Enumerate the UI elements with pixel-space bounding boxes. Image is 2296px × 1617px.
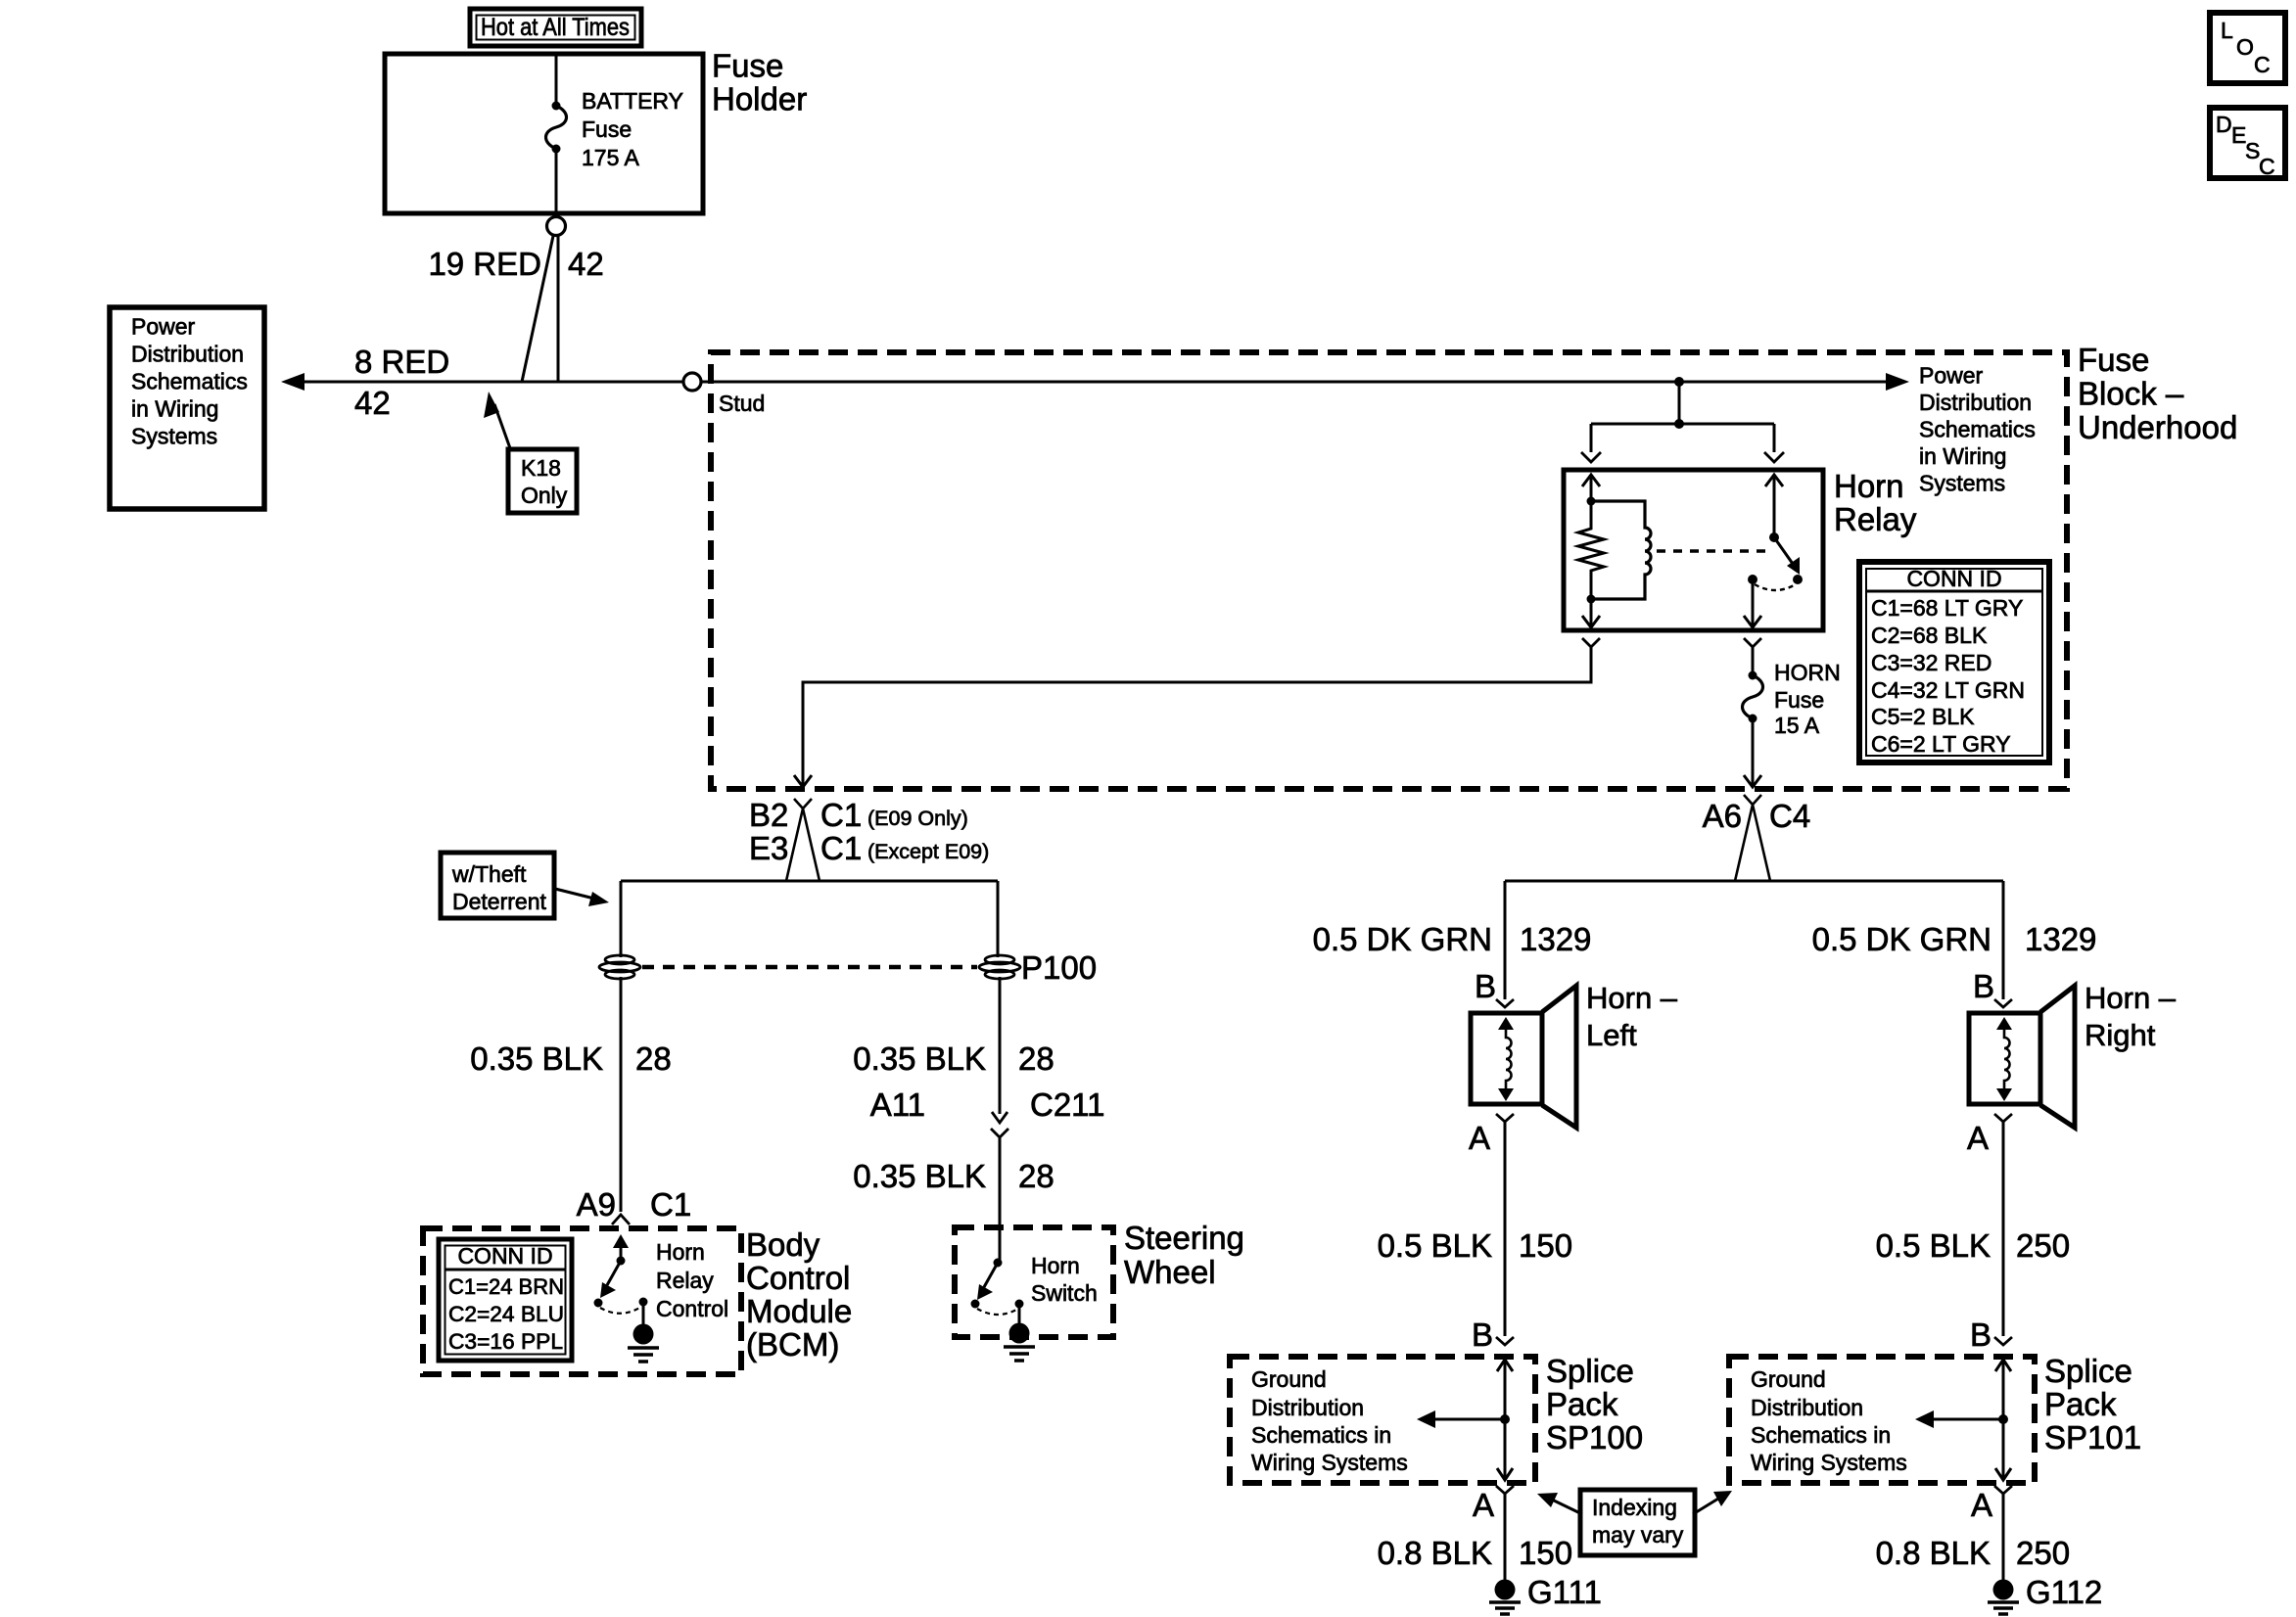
stud ring terminal — [683, 373, 701, 391]
splice pack SP101 dashed box — [1729, 1357, 2035, 1483]
svg-text:C2=24 BLU: C2=24 BLU — [448, 1302, 564, 1326]
relay closed contact — [1793, 575, 1803, 584]
svg-text:K18: K18 — [521, 455, 561, 481]
label 0.5 BLK 150 — [1378, 1227, 1572, 1264]
HORN fuse 15A symbol — [1743, 671, 1763, 723]
BATTERY fuse value label — [582, 88, 683, 170]
svg-text:Schematics in: Schematics in — [1751, 1422, 1891, 1448]
wire fuse to box edge — [1752, 718, 1755, 786]
svg-text:A: A — [1473, 1487, 1494, 1523]
svg-text:0.5 DK GRN: 0.5 DK GRN — [1313, 921, 1492, 957]
node coil bottom — [1587, 595, 1596, 604]
SP100 reference arrow — [1417, 1410, 1510, 1428]
connector A6/C4 X symbol — [1735, 795, 1770, 881]
svg-text:28: 28 — [1018, 1040, 1054, 1077]
svg-text:P100: P100 — [1021, 949, 1097, 986]
relay output contact — [1748, 575, 1757, 584]
svg-text:Horn: Horn — [1834, 468, 1904, 504]
indexing arrow right — [1693, 1491, 1732, 1514]
svg-text:Module: Module — [746, 1293, 852, 1329]
svg-text:250: 250 — [2016, 1227, 2070, 1264]
label 0.35 BLK 28 (mid) — [853, 1040, 1054, 1077]
svg-text:Control: Control — [746, 1260, 850, 1296]
svg-text:A: A — [1469, 1120, 1490, 1156]
wire main bus from stud to right arrow — [701, 373, 1909, 391]
relay coil feed pin arrow up — [1582, 475, 1600, 501]
label 0.5 DK GRN 1329 (right) — [1812, 921, 2097, 957]
connector chevron right horn B — [1994, 999, 2012, 1007]
svg-text:8 RED: 8 RED — [354, 344, 449, 380]
svg-text:Hot at All Times: Hot at All Times — [481, 14, 630, 41]
svg-text:Fuse: Fuse — [712, 48, 783, 84]
svg-text:150: 150 — [1519, 1227, 1572, 1264]
svg-text:Fuse: Fuse — [582, 116, 632, 142]
arrow exit bottom right — [1744, 775, 1761, 787]
ground distribution note (SP101) — [1751, 1366, 1907, 1475]
indexing arrow left — [1537, 1493, 1582, 1514]
BATTERY fuse 175A symbol — [546, 102, 567, 154]
svg-text:in Wiring: in Wiring — [1919, 443, 2006, 469]
svg-text:150: 150 — [1519, 1535, 1572, 1571]
resistor (relay suppression) — [1578, 501, 1604, 599]
label 0.8 BLK 250 — [1876, 1535, 2070, 1571]
wire right drop to P100 — [997, 881, 1000, 957]
svg-text:may vary: may vary — [1592, 1522, 1684, 1548]
svg-text:Fuse: Fuse — [2078, 342, 2149, 378]
svg-text:SP101: SP101 — [2044, 1419, 2141, 1455]
BCM ground symbol — [628, 1324, 659, 1363]
svg-text:Block –: Block – — [2078, 376, 2184, 412]
Steering Wheel label — [1124, 1220, 1244, 1290]
right horn body box — [1969, 1013, 2040, 1104]
wire relay feed branch — [1591, 423, 1774, 426]
svg-text:C5=2 BLK: C5=2 BLK — [1871, 704, 1975, 729]
svg-text:C1=68 LT GRY: C1=68 LT GRY — [1871, 595, 2023, 621]
svg-text:250: 250 — [2016, 1535, 2070, 1571]
Steering Wheel dashed box — [955, 1227, 1113, 1337]
dashed harness link — [642, 965, 977, 970]
wire relay pin 4 to fuse — [1752, 647, 1755, 674]
svg-text:1329: 1329 — [1520, 921, 1591, 957]
Hot at All Times label box — [470, 9, 641, 46]
relay contact travel dashed arc — [1755, 584, 1796, 590]
connector chevron left horn B — [1496, 999, 1514, 1007]
svg-text:C2=68 BLK: C2=68 BLK — [1871, 623, 1988, 648]
svg-text:Splice: Splice — [2044, 1353, 2132, 1389]
svg-text:(BCM): (BCM) — [746, 1326, 839, 1363]
ground distribution note (SP100) — [1251, 1366, 1408, 1475]
svg-text:A9: A9 — [577, 1186, 616, 1223]
BCM switch left contact — [594, 1299, 603, 1308]
svg-text:B: B — [1973, 968, 1994, 1004]
arrow exit bottom left — [794, 775, 812, 787]
label 0.35 BLK 28 (lower) — [853, 1158, 1054, 1194]
svg-text:0.5 BLK: 0.5 BLK — [1378, 1227, 1492, 1264]
BCM switch blade — [600, 1261, 621, 1298]
svg-text:28: 28 — [1018, 1158, 1054, 1194]
horn switch left contact — [971, 1300, 980, 1309]
right horn bell — [2040, 986, 2075, 1128]
CONN ID table (BCM) — [439, 1239, 572, 1361]
wire bus drop to relay branch — [1678, 382, 1681, 424]
wire left horn to splice SP100 — [1504, 1122, 1507, 1336]
svg-text:0.5 BLK: 0.5 BLK — [1876, 1227, 1991, 1264]
svg-text:A: A — [1971, 1487, 1992, 1523]
label 19 RED / 42 — [428, 246, 603, 282]
label 0.5 BLK 250 — [1876, 1227, 2070, 1264]
K18 arrow to wire — [484, 392, 510, 448]
svg-text:Only: Only — [521, 483, 568, 508]
svg-text:Distribution: Distribution — [131, 342, 244, 367]
svg-text:C4=32 LT GRN: C4=32 LT GRN — [1871, 677, 2025, 703]
label A11 C211 — [870, 1086, 1105, 1123]
svg-text:Schematics: Schematics — [131, 369, 248, 394]
wire relay pin 3 to BCM branch — [803, 647, 1591, 786]
K18 Only callout box — [508, 449, 577, 513]
horn switch blade — [977, 1263, 998, 1300]
wire 8 RED horizontal with left arrow — [281, 373, 683, 391]
steering ground symbol — [1004, 1323, 1035, 1362]
connector chevron SP101 B — [1994, 1337, 2012, 1345]
connector chevron SP100 A — [1496, 1486, 1514, 1494]
wire drop to left horn — [1504, 881, 1507, 999]
connector chevron relay pin 1 — [1581, 452, 1601, 462]
Horn Right label — [2085, 981, 2177, 1052]
relay coil ground pin arrow down — [1582, 599, 1600, 627]
svg-text:(E09 Only): (E09 Only) — [867, 807, 968, 830]
svg-text:C6=2 LT GRY: C6=2 LT GRY — [1871, 731, 2011, 757]
svg-text:Horn –: Horn – — [1586, 981, 1678, 1015]
connector chevron left horn A — [1496, 1114, 1514, 1122]
svg-text:L: L — [2221, 18, 2233, 43]
wire drop to relay pin 2 — [1773, 424, 1776, 452]
wire C211 to steering wheel — [999, 1137, 1002, 1263]
svg-text:Indexing: Indexing — [1592, 1495, 1677, 1520]
svg-text:Power: Power — [131, 314, 196, 340]
connector chevron SP101 A — [1994, 1486, 2012, 1494]
svg-text:Power: Power — [1919, 363, 1984, 389]
svg-text:B: B — [1475, 968, 1496, 1004]
Horn Left label — [1586, 981, 1678, 1052]
wire drop to relay pin 1 — [1590, 424, 1593, 452]
label B2 C1 (E09 Only) — [749, 797, 968, 833]
connector chevron relay pin 3 — [1582, 638, 1600, 647]
svg-text:0.8 BLK: 0.8 BLK — [1378, 1535, 1492, 1571]
svg-text:B: B — [1472, 1317, 1493, 1353]
SP101 label — [2044, 1353, 2141, 1455]
relay coil winding — [1591, 501, 1651, 599]
svg-text:Horn: Horn — [656, 1239, 705, 1265]
svg-text:Distribution: Distribution — [1251, 1395, 1364, 1420]
ground G111 symbol — [1489, 1580, 1521, 1615]
svg-text:w/Theft: w/Theft — [451, 861, 527, 887]
splice pack SP100 dashed box — [1230, 1357, 1535, 1483]
connector A11/C211 arrow and chevron — [991, 1112, 1008, 1137]
svg-text:Right: Right — [2085, 1018, 2156, 1052]
svg-text:19 RED: 19 RED — [428, 246, 541, 282]
svg-text:Pack: Pack — [1546, 1386, 1618, 1422]
svg-text:SP100: SP100 — [1546, 1419, 1643, 1455]
Horn Switch label — [1031, 1253, 1098, 1306]
svg-text:C3=16 PPL: C3=16 PPL — [448, 1329, 563, 1354]
BCM switch input arrow up — [613, 1234, 629, 1261]
Power Distribution Schematics reference box (left) — [110, 307, 264, 509]
connector chevron relay pin 2 — [1764, 452, 1784, 462]
HORN fuse label — [1774, 660, 1841, 738]
BCM ground stem — [642, 1302, 645, 1324]
horn switch pivot — [994, 1259, 1003, 1268]
horn switch travel dashed arc — [977, 1309, 1018, 1315]
label A9 C1 — [577, 1186, 692, 1223]
svg-text:Ground: Ground — [1751, 1366, 1826, 1392]
svg-text:Control: Control — [656, 1296, 728, 1321]
Body Control Module dashed box — [423, 1228, 741, 1374]
horn switch ground stem — [1018, 1304, 1021, 1323]
wire theft-deterrent branch — [621, 880, 998, 883]
svg-text:Left: Left — [1586, 1018, 1637, 1052]
svg-text:Distribution: Distribution — [1919, 390, 2032, 415]
connector chevron relay pin 4 — [1744, 638, 1761, 647]
svg-text:0.5 DK GRN: 0.5 DK GRN — [1812, 921, 1991, 957]
svg-text:G112: G112 — [2026, 1574, 2102, 1610]
svg-text:C4: C4 — [1769, 798, 1810, 834]
wire vertical from ring to 8 RED wire — [557, 236, 560, 382]
output ring terminal — [547, 217, 566, 236]
label 0.35 BLK 28 (left) — [470, 1040, 672, 1077]
svg-text:42: 42 — [354, 385, 391, 421]
label 0.5 DK GRN 1329 (left) — [1313, 921, 1592, 957]
svg-text:CONN ID: CONN ID — [457, 1243, 552, 1269]
svg-text:HORN: HORN — [1774, 660, 1841, 685]
Fuse Block - Underhood dashed box — [711, 352, 2067, 789]
connector chevron SP100 B — [1496, 1337, 1514, 1345]
svg-text:A11: A11 — [870, 1086, 925, 1123]
svg-text:Wheel: Wheel — [1124, 1254, 1216, 1290]
Horn Relay label — [1834, 468, 1917, 537]
svg-text:C: C — [2254, 52, 2271, 77]
svg-text:0.35 BLK: 0.35 BLK — [470, 1040, 603, 1077]
svg-text:Underhood: Underhood — [2078, 409, 2237, 445]
svg-text:A: A — [1967, 1120, 1989, 1156]
svg-text:Relay: Relay — [1834, 501, 1917, 537]
svg-text:Switch: Switch — [1031, 1280, 1098, 1306]
svg-text:C1: C1 — [820, 830, 862, 866]
Power Distribution Schematics note (right) — [1919, 363, 2036, 496]
CONN ID table (fuse block) — [1859, 562, 2049, 762]
svg-text:C1: C1 — [820, 797, 862, 833]
svg-text:BATTERY: BATTERY — [582, 88, 683, 114]
inline connector P100 — [979, 955, 1020, 979]
connector chevron A9 — [612, 1215, 630, 1224]
svg-text:Ground: Ground — [1251, 1366, 1327, 1392]
svg-text:Systems: Systems — [131, 424, 217, 449]
svg-text:Pack: Pack — [2044, 1386, 2117, 1422]
svg-text:in Wiring: in Wiring — [131, 396, 218, 422]
svg-text:1329: 1329 — [2025, 921, 2096, 957]
left horn bell — [1542, 986, 1576, 1128]
Horn Relay Control label — [656, 1239, 728, 1321]
svg-text:Body: Body — [746, 1226, 820, 1263]
label A6 C4 — [1703, 798, 1811, 834]
svg-text:Holder: Holder — [712, 81, 807, 117]
inline connector left half (theft) — [599, 955, 640, 979]
svg-text:Steering: Steering — [1124, 1220, 1244, 1256]
svg-text:0.8 BLK: 0.8 BLK — [1876, 1535, 1991, 1571]
wire horn feed branch — [1505, 880, 2003, 883]
svg-text:Fuse: Fuse — [1774, 687, 1824, 713]
svg-text:0.35 BLK: 0.35 BLK — [853, 1158, 986, 1194]
svg-text:Stud: Stud — [719, 391, 765, 416]
svg-text:Distribution: Distribution — [1751, 1395, 1863, 1420]
svg-text:G111: G111 — [1527, 1574, 1602, 1610]
relay common pin arrow up — [1765, 475, 1783, 537]
connector B2/E3 X symbol — [786, 799, 820, 881]
svg-text:C: C — [2259, 154, 2275, 179]
left horn coil element — [1498, 1017, 1514, 1101]
relay armature dashed link — [1657, 549, 1768, 552]
svg-text:15 A: 15 A — [1774, 713, 1820, 738]
svg-text:Horn: Horn — [1031, 1253, 1080, 1278]
wire SP101 to G112 — [2002, 1494, 2005, 1580]
left horn body box — [1471, 1013, 1542, 1104]
horn relay box — [1564, 470, 1823, 630]
svg-text:0.35 BLK: 0.35 BLK — [853, 1040, 986, 1077]
node junction branch — [1674, 419, 1684, 429]
svg-text:Systems: Systems — [1919, 471, 2005, 496]
svg-text:O: O — [2236, 34, 2254, 60]
Indexing may vary box — [1580, 1490, 1695, 1555]
wire diagonal branch from ring — [522, 236, 553, 382]
svg-text:Horn –: Horn – — [2085, 981, 2177, 1015]
connector chevron right horn A — [1994, 1114, 2012, 1122]
w/Theft arrow — [555, 889, 609, 906]
BCM switch travel dashed arc — [600, 1307, 641, 1314]
svg-text:28: 28 — [635, 1040, 672, 1077]
BCM switch pivot — [617, 1257, 626, 1266]
node junction on bus — [1674, 377, 1684, 387]
right horn coil element — [1996, 1017, 2012, 1101]
wire fuse to output ring — [555, 149, 558, 216]
svg-text:C1: C1 — [650, 1186, 691, 1223]
node coil top — [1587, 497, 1596, 506]
BCM label — [746, 1226, 852, 1363]
svg-text:D: D — [2216, 112, 2232, 137]
svg-text:E3: E3 — [749, 830, 788, 866]
svg-text:Schematics in: Schematics in — [1251, 1422, 1391, 1448]
svg-text:C3=32 RED: C3=32 RED — [1871, 650, 1991, 675]
w/Theft Deterrent callout box — [441, 853, 554, 918]
wire left drop to P100 connector — [620, 881, 623, 957]
svg-text:Splice: Splice — [1546, 1353, 1634, 1389]
svg-text:Wiring Systems: Wiring Systems — [1751, 1450, 1907, 1475]
SP101 reference arrow — [1915, 1410, 2008, 1428]
wire from box top to fuse — [555, 54, 558, 105]
svg-text:CONN ID: CONN ID — [1906, 566, 2001, 591]
horn switch ground contact — [1015, 1300, 1024, 1309]
relay output pin arrow down — [1744, 579, 1761, 627]
wire left drop to BCM — [620, 977, 623, 1212]
svg-text:Deterrent: Deterrent — [452, 889, 546, 914]
svg-text:C211: C211 — [1030, 1086, 1104, 1123]
wire right horn to splice SP101 — [2002, 1122, 2005, 1336]
svg-text:A6: A6 — [1703, 798, 1742, 834]
svg-text:(Except E09): (Except E09) — [867, 840, 989, 863]
relay switch blade — [1774, 537, 1800, 575]
wire SP100 to G111 — [1504, 1494, 1507, 1580]
svg-text:Wiring Systems: Wiring Systems — [1251, 1450, 1408, 1475]
wire drop to right horn — [2002, 881, 2005, 999]
ground G112 symbol — [1988, 1580, 2019, 1615]
svg-text:B2: B2 — [749, 797, 788, 833]
label 8 RED / 42 — [354, 344, 449, 421]
DESC index box — [2210, 108, 2285, 179]
SP100 label — [1546, 1353, 1643, 1455]
svg-text:Relay: Relay — [656, 1268, 714, 1293]
label E3 C1 (Except E09) — [749, 830, 989, 866]
svg-text:175 A: 175 A — [582, 145, 639, 170]
svg-text:Schematics: Schematics — [1919, 417, 2036, 442]
wire P100 to C211 — [999, 977, 1002, 1114]
svg-text:42: 42 — [568, 246, 604, 282]
label 0.8 BLK 150 — [1378, 1535, 1572, 1571]
LOC index box — [2210, 13, 2285, 83]
Fuse Block label — [2078, 342, 2237, 445]
SP101 bus wire double arrow — [1995, 1360, 2011, 1480]
BCM switch ground contact — [639, 1298, 648, 1307]
SP100 bus wire double arrow — [1497, 1360, 1513, 1480]
relay switch pivot — [1769, 532, 1779, 542]
svg-text:C1=24 BRN: C1=24 BRN — [448, 1274, 564, 1299]
fuse holder box — [385, 54, 703, 213]
svg-text:B: B — [1970, 1317, 1991, 1353]
